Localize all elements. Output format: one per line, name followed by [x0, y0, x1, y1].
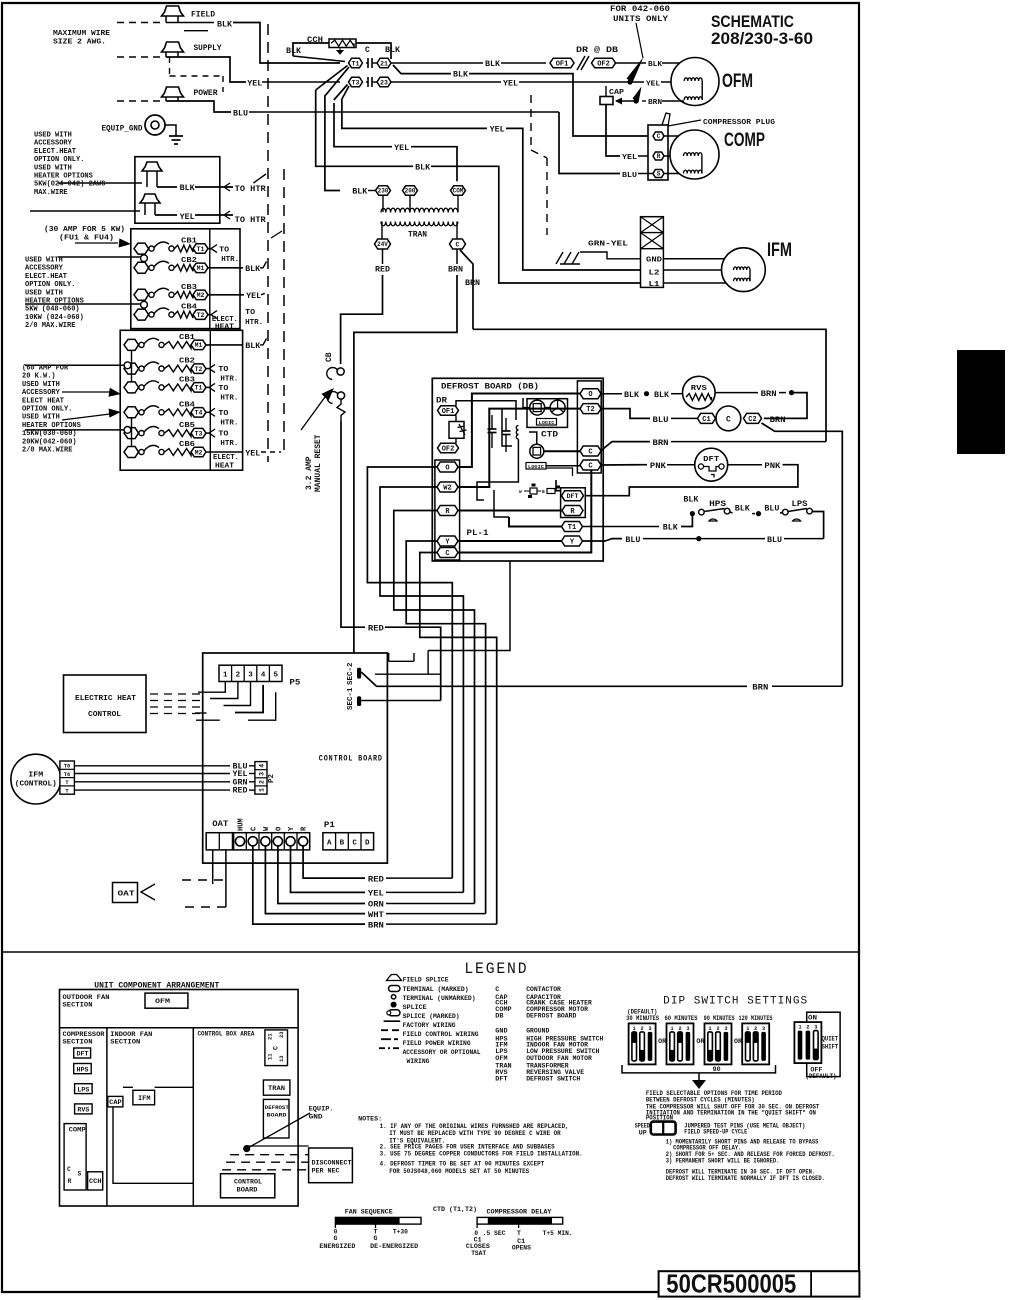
svg-text:GND: GND — [309, 1113, 323, 1121]
svg-text:M2: M2 — [195, 449, 203, 456]
svg-text:D: D — [365, 840, 370, 848]
svg-text:W: W — [519, 489, 522, 495]
svg-text:BLK: BLK — [683, 496, 698, 505]
svg-text:ACCESSORY: ACCESSORY — [25, 265, 64, 273]
wire BLK 21 branch to comp C — [393, 65, 451, 74]
cch ground mark — [337, 48, 343, 55]
svg-text:ELECT.HEAT: ELECT.HEAT — [25, 273, 67, 281]
svg-text:TO: TO — [218, 366, 229, 374]
legend accessory wiring — [379, 1047, 400, 1049]
dip switch block 90 min — [705, 1023, 732, 1064]
svg-text:T+5 MIN.: T+5 MIN. — [543, 1230, 573, 1237]
svg-text:DEFROST SWITCH: DEFROST SWITCH — [526, 1076, 580, 1084]
svg-text:USED WITH: USED WITH — [34, 132, 72, 140]
svg-text:RVS: RVS — [77, 1107, 89, 1114]
svg-text:2: 2 — [258, 780, 265, 784]
svg-text:CAP: CAP — [109, 1099, 122, 1106]
wire BLU from power — [166, 101, 231, 112]
arrow to CB — [301, 397, 325, 430]
svg-text:NOTES:: NOTES: — [358, 1115, 382, 1122]
svg-text:BLK: BLK — [648, 61, 663, 69]
svg-text:2: 2 — [678, 1026, 681, 1032]
svg-text:T2: T2 — [197, 312, 205, 319]
svg-text:SECTION: SECTION — [63, 1038, 93, 1046]
svg-text:TERMINAL (MARKED): TERMINAL (MARKED) — [403, 986, 469, 994]
svg-text:PL-1: PL-1 — [467, 529, 489, 538]
svg-text:A: A — [327, 840, 332, 848]
svg-text:DR: DR — [436, 397, 447, 406]
svg-text:RED: RED — [233, 787, 248, 796]
svg-text:QUIET: QUIET — [822, 1036, 839, 1043]
svg-text:DFT: DFT — [77, 1051, 89, 1058]
svg-text:HEATER OPTIONS: HEATER OPTIONS — [34, 173, 93, 181]
svg-text:.5 SEC: .5 SEC — [483, 1230, 506, 1237]
svg-text:BLU: BLU — [233, 110, 248, 119]
compressor motor COMP — [664, 135, 701, 137]
svg-text:BRN: BRN — [770, 416, 786, 425]
svg-text:DR @ DB: DR @ DB — [576, 46, 618, 55]
svg-text:UNITS ONLY: UNITS ONLY — [613, 15, 668, 24]
svg-text:WHT: WHT — [368, 911, 384, 920]
wire cap to comp R — [606, 105, 620, 157]
svg-text:HTR.: HTR. — [220, 419, 238, 427]
wire C2 BRN to right vertical — [762, 423, 843, 686]
svg-text:24V: 24V — [377, 241, 388, 248]
uca TRAN box — [263, 1080, 290, 1095]
svg-text:50CR500005: 50CR500005 — [666, 1269, 796, 1299]
svg-text:T1: T1 — [568, 524, 576, 532]
svg-text:30 MINUTES: 30 MINUTES — [626, 1015, 659, 1022]
svg-text:BLU: BLU — [625, 536, 640, 545]
title block 50CR500005 — [659, 1271, 860, 1296]
svg-text:YEL: YEL — [646, 81, 661, 89]
wire BRN ofm — [642, 100, 646, 102]
svg-text:S: S — [78, 1171, 82, 1178]
svg-text:LPS: LPS — [792, 500, 808, 509]
svg-text:L2: L2 — [649, 270, 661, 278]
dip switch block 30 min — [629, 1023, 656, 1064]
db capacitor 2 — [505, 418, 507, 431]
cb1 linking circles — [141, 255, 148, 262]
legend symbol terminal unmarked — [391, 995, 395, 999]
svg-text:PNK: PNK — [764, 462, 780, 471]
wires into cb box1 — [58, 256, 141, 258]
svg-text:3: 3 — [648, 1026, 651, 1032]
svg-text:MANUAL RESET: MANUAL RESET — [314, 434, 323, 492]
wire BLK T1 to IFM L1 — [316, 90, 413, 166]
svg-text:T4: T4 — [195, 410, 203, 417]
svg-text:LOGIC: LOGIC — [539, 420, 555, 426]
OAT sensor box — [113, 883, 138, 903]
svg-text:USED WITH: USED WITH — [22, 381, 60, 389]
svg-text:O: O — [588, 391, 592, 399]
wire BLU row — [583, 539, 623, 541]
svg-text:TO HTR: TO HTR — [235, 185, 266, 194]
section separator — [2, 951, 859, 953]
svg-text:CCH: CCH — [89, 1178, 102, 1185]
svg-text:T0: T0 — [64, 763, 71, 770]
ifm control connector — [60, 761, 75, 794]
svg-text:MAXIMUM WIRE: MAXIMUM WIRE — [53, 30, 111, 38]
svg-text:CB: CB — [325, 352, 334, 362]
svg-text:21: 21 — [267, 1033, 274, 1040]
OAT wires down — [212, 850, 214, 884]
svg-text:HTR.: HTR. — [221, 256, 239, 264]
wire O to control bundle — [367, 467, 452, 878]
svg-text:4: 4 — [261, 672, 266, 680]
svg-text:DIP SWITCH SETTINGS: DIP SWITCH SETTINGS — [663, 996, 808, 1008]
wires into cb box2 — [25, 364, 124, 366]
terminal W2 — [437, 482, 458, 493]
svg-text:BLK: BLK — [245, 265, 260, 274]
wire W2 to control bundle — [380, 487, 463, 892]
svg-text:(CONTROL): (CONTROL) — [15, 781, 57, 789]
uca inner area — [113, 1096, 193, 1183]
accessory boundary dashed lines — [267, 24, 269, 462]
svg-text:YEL: YEL — [247, 80, 262, 89]
small diodes — [530, 488, 537, 494]
svg-text:BLK: BLK — [663, 524, 678, 533]
dashed wiring near defrost top — [530, 95, 532, 150]
svg-text:O: O — [445, 465, 449, 473]
svg-text:ACCESSORY OR OPTIONAL: ACCESSORY OR OPTIONAL — [403, 1049, 481, 1057]
svg-text:DFT: DFT — [495, 1076, 507, 1084]
outdoor fan motor OFM — [671, 62, 702, 64]
svg-text:R: R — [68, 1178, 72, 1185]
svg-text:(DEFAULT): (DEFAULT) — [806, 1073, 837, 1080]
defrost board DB box — [432, 378, 603, 561]
wire field dashed — [117, 22, 160, 24]
svg-text:T+30: T+30 — [393, 1228, 408, 1235]
svg-text:90: 90 — [713, 1066, 721, 1073]
svg-text:BLK: BLK — [415, 163, 430, 172]
svg-text:C1: C1 — [702, 416, 710, 424]
svg-text:BLU: BLU — [622, 172, 638, 180]
terminal R right — [562, 506, 583, 517]
switch blade arrows — [627, 57, 644, 83]
svg-text:COM: COM — [453, 188, 464, 195]
svg-text:IFM: IFM — [28, 772, 43, 780]
svg-text:DB: DB — [495, 1013, 503, 1021]
svg-text:YEL: YEL — [245, 449, 260, 458]
svg-text:YEL: YEL — [490, 126, 505, 135]
svg-text:FIELD POWER WIRING: FIELD POWER WIRING — [403, 1040, 471, 1048]
uca divider — [60, 1027, 299, 1029]
svg-text:200: 200 — [405, 188, 416, 195]
svg-text:T2: T2 — [586, 406, 594, 414]
svg-text:IT MUST BE REPLACED WITH TYPE: IT MUST BE REPLACED WITH TYPE 90 DEGREE … — [389, 1130, 561, 1137]
svg-text:BRN: BRN — [368, 921, 384, 930]
wire supply dashed — [117, 56, 160, 58]
svg-text:GROUND: GROUND — [526, 1028, 549, 1036]
svg-text:T3: T3 — [352, 79, 360, 86]
tran secondary winding — [381, 222, 458, 226]
svg-text:3) PERMANENT SHORT WILL BE IGN: 3) PERMANENT SHORT WILL BE IGNORED. — [666, 1157, 780, 1164]
svg-text:SPEED: SPEED — [635, 1122, 650, 1129]
svg-text:COMPRESSOR DELAY: COMPRESSOR DELAY — [487, 1208, 553, 1216]
CB box 1 (4 breakers) — [131, 229, 240, 329]
heater plug box — [135, 157, 220, 224]
wire YEL from supply to T3 — [166, 57, 246, 82]
svg-text:C: C — [726, 416, 731, 425]
svg-text:DFT: DFT — [567, 493, 579, 500]
svg-text:2: 2 — [236, 672, 241, 680]
arrow to cb1 — [75, 242, 118, 244]
svg-text:OAT: OAT — [118, 891, 136, 899]
svg-text:GND: GND — [495, 1028, 507, 1036]
svg-text:CTD: CTD — [541, 431, 558, 440]
svg-text:13: 13 — [278, 1055, 285, 1062]
svg-text:BLK: BLK — [217, 21, 232, 30]
svg-text:2. SEE PRICE PAGES FOR USER IN: 2. SEE PRICE PAGES FOR USER INTERFACE AN… — [380, 1144, 555, 1151]
p5 wires staircase — [198, 682, 225, 693]
svg-text:20 K.W.): 20 K.W.) — [22, 373, 56, 381]
arrows to cb2 — [62, 391, 110, 393]
connector P5 — [219, 665, 282, 681]
legend field control wiring — [381, 1029, 400, 1031]
db capacitor 1 — [491, 415, 493, 429]
control board box — [203, 653, 388, 863]
svg-text:BOARD: BOARD — [267, 1112, 288, 1119]
wire BRN from tran C to defrost C (right) — [460, 250, 473, 329]
svg-text:YEL: YEL — [394, 144, 409, 153]
legend field power wiring — [381, 1038, 400, 1040]
svg-text:SPLICE (MARKED): SPLICE (MARKED) — [403, 1013, 460, 1021]
svg-text:ENERGIZED: ENERGIZED — [319, 1243, 355, 1250]
svg-text:PER NEC: PER NEC — [312, 1168, 340, 1175]
uca OFM box — [145, 993, 188, 1008]
svg-text:FIELD SPLICE: FIELD SPLICE — [403, 976, 449, 984]
svg-text:C: C — [273, 1046, 280, 1050]
svg-text:L1: L1 — [649, 281, 661, 289]
compressor delay bar — [477, 1217, 563, 1224]
svg-text:11: 11 — [267, 1053, 274, 1060]
svg-text:TSAT: TSAT — [471, 1250, 486, 1257]
uca DEFROST BOARD box — [263, 1099, 289, 1138]
svg-text:C: C — [657, 133, 661, 140]
svg-text:LPS: LPS — [77, 1086, 89, 1093]
svg-text:C: C — [250, 827, 258, 831]
svg-text:120 MINUTES: 120 MINUTES — [739, 1015, 773, 1022]
PL-1 connector box — [435, 460, 460, 560]
svg-text:BLU: BLU — [764, 505, 779, 514]
terminal circles row — [234, 833, 310, 850]
svg-text:YEL: YEL — [622, 154, 638, 162]
svg-text:3: 3 — [248, 672, 253, 680]
svg-text:90 MINUTES: 90 MINUTES — [704, 1015, 735, 1022]
svg-text:CONTACTOR: CONTACTOR — [526, 986, 562, 994]
svg-text:DE-ENERGIZED: DE-ENERGIZED — [370, 1243, 418, 1250]
svg-text:BLU: BLU — [653, 416, 669, 425]
svg-text:TO: TO — [245, 309, 256, 317]
svg-text:SECTION: SECTION — [110, 1038, 140, 1046]
dip switch block 60 min — [667, 1023, 694, 1064]
svg-text:5: 5 — [273, 672, 278, 680]
wire YEL T3 to TRAN COM — [334, 103, 392, 147]
wire T1 internal — [509, 517, 562, 527]
svg-text:2: 2 — [806, 1025, 809, 1031]
svg-text:OPTION ONLY.: OPTION ONLY. — [34, 156, 84, 164]
dashed field wiring between supply and power — [169, 57, 171, 76]
svg-text:COMPRESSOR PLUG: COMPRESSOR PLUG — [703, 119, 776, 127]
svg-text:BLU: BLU — [767, 536, 782, 545]
cap arrow — [616, 100, 634, 102]
svg-text:OR: OR — [734, 1038, 742, 1045]
svg-text:RVS: RVS — [691, 385, 707, 393]
svg-text:23: 23 — [380, 79, 388, 86]
svg-text:BRN: BRN — [648, 99, 662, 107]
svg-text:OF2: OF2 — [597, 61, 610, 69]
terminal C right 2 — [580, 460, 601, 471]
svg-text:OR: OR — [696, 1038, 704, 1045]
svg-text:OPENS: OPENS — [512, 1244, 531, 1251]
svg-text:HUM: HUM — [238, 818, 246, 831]
wire LPS to BLU row — [812, 512, 824, 539]
svg-text:3.2 AMP: 3.2 AMP — [305, 456, 314, 490]
svg-text:C: C — [588, 463, 592, 471]
plug to heater BLK — [142, 162, 162, 171]
wire Y to control bundle — [406, 541, 485, 914]
svg-text:EQUIP_GND: EQUIP_GND — [102, 125, 143, 134]
wire cch left lead BLK — [293, 43, 329, 56]
wire BLK 21 to OF1 — [391, 62, 483, 64]
svg-text:P5: P5 — [289, 679, 300, 688]
terminal C right — [580, 446, 601, 457]
svg-text:ELECT.: ELECT. — [213, 454, 239, 462]
svg-text:CTD (T1,T2): CTD (T1,T2) — [433, 1206, 477, 1214]
svg-text:TO HTR: TO HTR — [235, 216, 266, 225]
svg-text:1: 1 — [798, 1025, 801, 1031]
svg-text:OR: OR — [658, 1038, 666, 1045]
svg-text:FIELD: FIELD — [191, 11, 215, 20]
uca CONTROL BOARD box — [221, 1174, 275, 1198]
uca DFT box — [74, 1048, 91, 1058]
svg-text:UP: UP — [639, 1130, 647, 1137]
svg-text:OPTION ONLY.: OPTION ONLY. — [25, 281, 75, 289]
quiet shift outer box — [807, 1012, 840, 1076]
svg-text:CONTROL: CONTROL — [88, 711, 121, 719]
svg-text:DFT: DFT — [703, 456, 719, 464]
svg-text:BLK: BLK — [352, 188, 367, 197]
tran primary winding — [382, 208, 384, 212]
svg-text:C: C — [456, 241, 460, 248]
svg-text:YEL: YEL — [180, 213, 195, 222]
terminal O right — [580, 389, 601, 400]
terminal OF2 — [592, 58, 616, 68]
quiet shift dip block — [794, 1022, 821, 1063]
wire PNK right loop — [728, 464, 762, 466]
wire BRN defrost C row — [601, 442, 651, 451]
svg-text:BLK: BLK — [385, 46, 400, 55]
wire diagonals from contactor down — [316, 66, 348, 91]
svg-text:ACCESSORY: ACCESSORY — [34, 140, 73, 148]
svg-text:G: G — [374, 1235, 378, 1242]
svg-text:C: C — [445, 550, 449, 558]
svg-text:1: 1 — [746, 1026, 749, 1032]
fork to htr 2 — [224, 211, 230, 219]
uca CCH box — [88, 1172, 103, 1190]
svg-text:BLK: BLK — [245, 342, 260, 351]
svg-text:PNK: PNK — [650, 462, 666, 471]
IFM terminal block — [641, 217, 664, 288]
contactor contact C: T3 / 23 — [349, 77, 363, 87]
svg-text:USED WITH: USED WITH — [22, 414, 60, 422]
cb2 row exits — [206, 344, 243, 346]
svg-text:P1: P1 — [324, 821, 335, 830]
legend symbol terminal marked — [389, 986, 401, 992]
svg-text:S: S — [657, 171, 661, 178]
svg-text:R: R — [657, 153, 661, 160]
svg-text:3: 3 — [724, 1026, 727, 1032]
svg-text:TERMINAL (UNMARKED): TERMINAL (UNMARKED) — [403, 995, 476, 1003]
svg-text:C: C — [67, 1166, 71, 1173]
wire O to RVS — [601, 393, 622, 395]
svg-text:EQUIP.: EQUIP. — [309, 1105, 334, 1113]
svg-text:BLK: BLK — [485, 60, 500, 69]
wire BLK from field to T1 — [166, 22, 214, 24]
contactor coil C — [698, 413, 716, 424]
svg-text:ON: ON — [808, 1015, 817, 1022]
svg-text:USED WITH: USED WITH — [34, 164, 72, 172]
svg-text:ELECTRIC HEAT: ELECTRIC HEAT — [75, 695, 136, 703]
svg-text:WIRING: WIRING — [407, 1058, 430, 1066]
svg-text:5KW(024-042) 2AWG: 5KW(024-042) 2AWG — [34, 181, 105, 189]
svg-text:BRN: BRN — [752, 684, 768, 693]
svg-text:USED WITH: USED WITH — [25, 289, 63, 297]
uca RVS box — [75, 1104, 93, 1114]
wires ifm-control to P2 — [74, 765, 230, 767]
svg-text:G: G — [334, 1235, 338, 1242]
svg-text:HTR.: HTR. — [220, 440, 238, 448]
terminal C — [437, 548, 458, 559]
wire RED cb down — [341, 421, 365, 627]
svg-text:2: 2 — [716, 1026, 719, 1032]
svg-text:ELECT.HEAT: ELECT.HEAT — [34, 148, 76, 156]
DISCONNECT PER NEC box — [309, 1148, 353, 1183]
svg-text:23: 23 — [278, 1031, 285, 1038]
svg-text:HPS: HPS — [709, 500, 726, 509]
svg-text:BRN: BRN — [465, 279, 480, 288]
svg-text:IFM: IFM — [767, 240, 792, 261]
svg-text:C: C — [495, 986, 499, 994]
relay circle 2 — [530, 444, 544, 458]
svg-text:15KW(030-060): 15KW(030-060) — [22, 430, 77, 438]
svg-text:SPLICE: SPLICE — [403, 1004, 427, 1012]
svg-text:1. IF ANY OF THE ORIGINAL WIRE: 1. IF ANY OF THE ORIGINAL WIRES FURNSHED… — [380, 1123, 569, 1130]
svg-text:2: 2 — [754, 1026, 757, 1032]
db internal wires — [458, 394, 580, 468]
IFM control motor — [11, 754, 61, 804]
svg-text:10KW (024-060): 10KW (024-060) — [25, 314, 84, 322]
svg-text:TRAN: TRAN — [268, 1085, 285, 1092]
svg-text:1: 1 — [633, 1026, 636, 1032]
uca C terminal block — [265, 1030, 288, 1066]
DFT connector box — [561, 488, 586, 518]
svg-text:TO: TO — [218, 410, 229, 418]
uca LPS box — [75, 1084, 93, 1094]
dashed leads to elect heat control — [150, 693, 202, 695]
svg-text:LEGEND: LEGEND — [464, 960, 528, 978]
svg-text:COMP: COMP — [724, 130, 765, 151]
svg-text:RED: RED — [368, 875, 384, 884]
svg-text:TRAN: TRAN — [408, 231, 427, 240]
svg-text:POWER: POWER — [194, 89, 218, 98]
svg-text:1: 1 — [223, 672, 228, 680]
svg-text:DEFROST BOARD (DB): DEFROST BOARD (DB) — [441, 382, 539, 392]
wires terminals down to color rows — [303, 846, 365, 878]
terminal DFT — [562, 491, 584, 501]
svg-text:SECTION: SECTION — [63, 1002, 93, 1010]
